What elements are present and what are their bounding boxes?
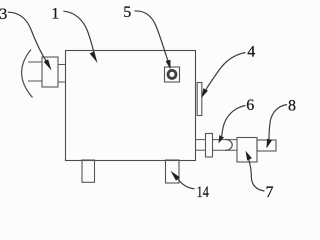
svg-text:3: 3: [0, 6, 7, 23]
arrowhead 14: [171, 171, 180, 181]
leader line for label 5: [135, 11, 169, 61]
arrowhead 7: [246, 151, 252, 161]
coupling arc on shaft: [225, 139, 232, 150]
arrowhead 5: [166, 60, 171, 70]
component 5 mount square: [165, 67, 180, 82]
left support leg: [82, 160, 95, 182]
component 3 left upper wire: [28, 61, 42, 63]
component 6 collar: [206, 134, 213, 158]
arrowhead 4: [202, 88, 208, 98]
arrowhead 1: [90, 51, 98, 63]
svg-text:5: 5: [123, 4, 131, 21]
leader line for label 14: [176, 176, 194, 189]
svg-text:1: 1: [51, 6, 59, 23]
leader line for label 8: [269, 105, 287, 142]
component 5 ring: [168, 70, 176, 78]
svg-text:6: 6: [246, 97, 254, 114]
component 3 box: [42, 57, 58, 87]
main housing box 1: [66, 51, 196, 161]
component 3 stub to housing (upper wire): [58, 64, 66, 66]
shaft segment A (housing to component 6): [195, 139, 206, 141]
component 3 stub to housing (lower wire): [58, 81, 66, 83]
leader line for label 3: [8, 12, 48, 63]
shaft segment 8: [257, 140, 276, 151]
leader line for label 4: [205, 53, 245, 91]
arrowhead 3: [44, 59, 52, 70]
support leg 14: [166, 160, 180, 183]
svg-text:4: 4: [247, 44, 255, 61]
component 3 left lower wire: [28, 80, 42, 82]
arrowhead 6: [219, 135, 225, 143]
component 3 curved intake arc: [22, 50, 33, 98]
box 7: [237, 138, 257, 163]
leader line for label 7: [248, 159, 264, 192]
shaft segment B (component 6 to box 7): [213, 139, 238, 141]
svg-text:7: 7: [266, 184, 274, 200]
leader line for label 6: [222, 106, 246, 137]
svg-text:14: 14: [197, 184, 209, 200]
leader line for label 1: [63, 11, 94, 55]
arrowhead 8: [267, 139, 273, 149]
component 4 rect on right wall: [197, 83, 202, 116]
svg-text:8: 8: [288, 98, 296, 115]
